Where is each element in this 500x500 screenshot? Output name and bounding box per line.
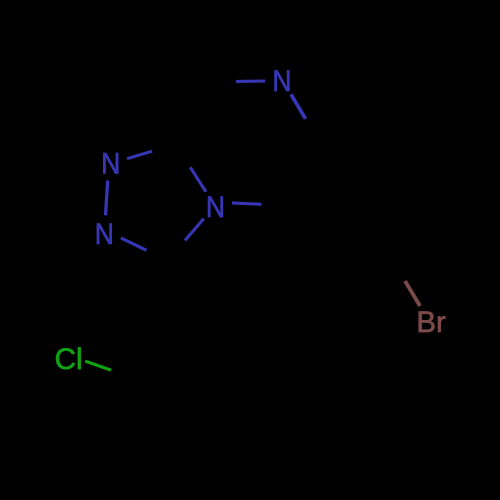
svg-text:N: N: [272, 65, 291, 98]
wire: bond N4-C4a blue half: [232, 203, 261, 204]
svg-text:Cl: Cl: [55, 343, 83, 376]
wire: bond C-Br maroon half: [405, 281, 420, 306]
svg-text:N: N: [206, 191, 225, 224]
wire: bond C5-N5 blue half (top horizontal): [236, 79, 265, 83]
svg-text:Br: Br: [416, 306, 446, 339]
wire: bond N5=C5a blue half (diagonal): [291, 94, 306, 119]
wire: bond C-Cl green half: [85, 361, 111, 370]
svg-text:N: N: [95, 218, 114, 251]
wire: bond N2-C3 blue half: [121, 238, 146, 250]
svg-text:N: N: [101, 147, 120, 180]
wire: bond C3-N4 blue half: [185, 219, 204, 241]
wire: bond N1-N2 (triazole left edge): [106, 181, 108, 216]
wire: bond C9a-N4 blue half: [190, 167, 206, 192]
wire: bond N1-C9a blue half: [127, 151, 152, 159]
